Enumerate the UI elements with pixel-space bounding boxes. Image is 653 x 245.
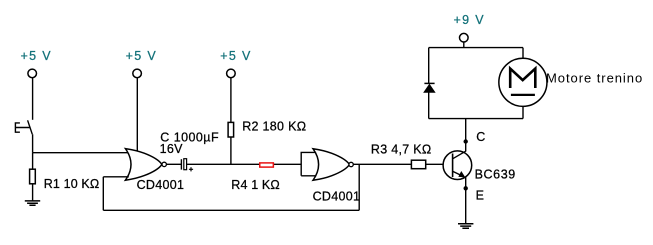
resistor R4 body (red) [260, 163, 274, 167]
ground under R1 [25, 201, 40, 205]
transistor Q1 collector stroke [453, 151, 466, 159]
svg-text:+5 V: +5 V [126, 49, 157, 63]
svg-text:R3 4,7 KΩ: R3 4,7 KΩ [371, 142, 432, 156]
push button P1 blade [28, 120, 33, 134]
wire +5V 2 to gate U1A [136, 78, 138, 153]
terminal circle +5V supply 1 [28, 69, 37, 78]
motor loop top wire [429, 47, 523, 49]
wire diode to motor loop bottom [428, 92, 430, 118]
node C dot [464, 139, 468, 143]
svg-text:CD4001: CD4001 [313, 190, 361, 204]
svg-text:R2 180 KΩ: R2 180 KΩ [242, 119, 306, 133]
wire from push button to node A [32, 134, 34, 152]
svg-text:16V: 16V [160, 142, 184, 156]
diode D1 triangle [424, 84, 435, 92]
svg-text:Motore trenino: Motore trenino [546, 70, 643, 85]
motor loop bottom wire [429, 118, 523, 120]
transistor Q1 circle [443, 151, 472, 180]
wire U1A output to capacitor [166, 163, 181, 165]
svg-text:BC639: BC639 [475, 167, 516, 181]
svg-text:R1 10 KΩ: R1 10 KΩ [44, 177, 100, 191]
feedback wire left vertical [102, 177, 104, 211]
nor gate U1A output bubble [162, 162, 166, 166]
svg-text:E: E [476, 188, 484, 202]
wire R2 to node B [230, 137, 232, 164]
terminal circle +5V supply 3 [227, 69, 236, 78]
wire +5V 3 to R2 [230, 78, 232, 122]
capacitor plus sign [189, 167, 193, 171]
wire emitter down to ground [465, 177, 467, 223]
wire R1 to ground [32, 184, 34, 201]
capacitor C left plate [180, 159, 182, 169]
svg-text:CD4001: CD4001 [137, 178, 185, 192]
transistor Q1 emitter stroke [453, 171, 465, 177]
svg-text:+5 V: +5 V [220, 49, 251, 63]
gate U1B input tie bar [301, 152, 318, 175]
feedback wire right vertical [358, 164, 360, 210]
feedback wire to gate U1A input 2 [103, 176, 129, 178]
wire node A to gate U1A input 1 [33, 152, 129, 154]
nor gate U1B output bubble [349, 162, 353, 166]
node E dot [464, 186, 468, 190]
wire capacitor to gate U1B through node B and R4 [187, 163, 301, 165]
wire node A down to R1 [32, 153, 34, 170]
svg-text:R4 1 KΩ: R4 1 KΩ [231, 178, 280, 192]
transistor Q1 base bar [452, 154, 454, 178]
transistor Q1 emitter arrow [459, 172, 465, 178]
nor gate U1A body [125, 149, 161, 181]
wire from +5V 1 to push button [32, 78, 34, 120]
terminal circle +9V [460, 33, 469, 42]
motor loop left wire with diode D1 [428, 48, 430, 84]
feedback wire bottom horizontal [103, 209, 359, 211]
motor M underline [511, 94, 535, 96]
diode D1 cathode bar [424, 82, 434, 84]
wire U1B output to R3 [353, 163, 411, 165]
wire R3 to transistor base [426, 163, 444, 165]
svg-text:C: C [476, 130, 485, 144]
terminal circle +5V supply 2 [133, 69, 142, 78]
motor loop right wire top segment [522, 48, 524, 58]
svg-text:+9 V: +9 V [454, 13, 485, 27]
motor loop right wire bottom segment [522, 107, 524, 119]
wire +9V to motor loop top [463, 42, 465, 47]
motor M symbol [510, 69, 535, 88]
resistor R3 body [411, 160, 425, 169]
svg-text:+5 V: +5 V [21, 49, 52, 63]
resistor R2 body [228, 122, 234, 137]
motor M1 circle [499, 58, 547, 106]
ground under transistor emitter [458, 224, 473, 229]
capacitor C right plate [184, 159, 187, 170]
wire motor loop bottom to collector [465, 119, 467, 152]
nor gate U1B body [313, 149, 350, 181]
resistor R1 body [30, 169, 36, 184]
push button P1 plunger [15, 122, 30, 133]
